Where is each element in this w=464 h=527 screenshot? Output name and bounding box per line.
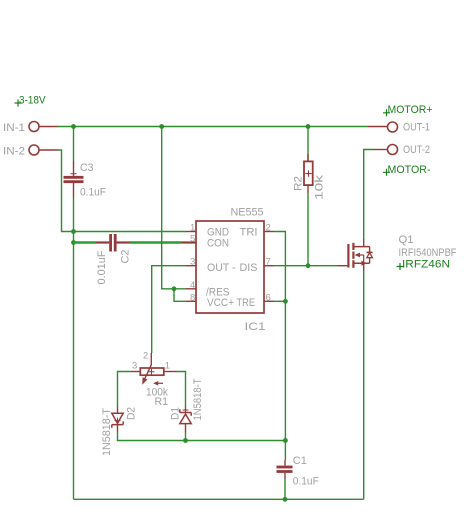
pin 1 stub <box>186 231 196 233</box>
pad IN-2 <box>29 145 58 155</box>
wire left GND vertical upper <box>73 127 75 162</box>
pin 4 stub <box>186 288 196 290</box>
pad IN-1 <box>29 122 58 132</box>
svg-text:Q1: Q1 <box>399 234 414 246</box>
pin 6 stub <box>264 300 274 302</box>
wire R2 top <box>307 127 309 162</box>
wire pot pin1 to D1 <box>176 372 186 408</box>
svg-text:10k: 10k <box>314 174 326 200</box>
svg-text:R2: R2 <box>293 176 305 191</box>
svg-text:1N5818-T: 1N5818-T <box>192 378 204 420</box>
svg-text:D2: D2 <box>125 407 137 420</box>
svg-text:2: 2 <box>266 223 271 234</box>
svg-text:2: 2 <box>143 351 148 362</box>
wire bottom rail <box>74 498 364 500</box>
capacitor C1 <box>277 460 293 479</box>
svg-text:OUT -: OUT - <box>207 262 236 274</box>
transistor Q1 <box>338 239 373 271</box>
wire CON stub highlighted <box>181 241 196 243</box>
svg-text:C3: C3 <box>80 162 94 174</box>
pad OUT-1 <box>368 122 398 132</box>
junction <box>183 438 188 443</box>
svg-text:3-18V: 3-18V <box>19 95 46 107</box>
svg-text:MOTOR-: MOTOR- <box>388 164 431 176</box>
svg-text:TRE: TRE <box>237 297 256 309</box>
svg-text:DIS: DIS <box>240 262 258 274</box>
diode D1 <box>180 407 191 433</box>
svg-text:0.1uF: 0.1uF <box>80 187 106 199</box>
pin 3 stub <box>186 265 196 267</box>
svg-text:D1: D1 <box>170 407 182 420</box>
wire D1 to bottom diode rail <box>185 433 187 441</box>
wire TRI to TRE vertical <box>274 232 285 302</box>
svg-text:C1: C1 <box>293 455 307 467</box>
junction <box>71 124 76 129</box>
wire pot pin3 to D2 <box>118 372 131 408</box>
wire CON line right <box>130 241 182 243</box>
diode D2 <box>112 407 123 432</box>
svg-text:1: 1 <box>190 223 195 234</box>
junction <box>71 229 76 234</box>
svg-text:R1: R1 <box>155 396 169 408</box>
svg-text:1: 1 <box>165 361 170 372</box>
wire +V drop to pins 4 8 <box>162 127 186 302</box>
pad OUT-2 <box>374 145 398 155</box>
svg-text:8: 8 <box>190 292 195 303</box>
wire source down <box>363 271 365 499</box>
wire CON line left <box>74 241 97 243</box>
potentiometer R1 <box>130 353 176 386</box>
svg-text:MOTOR+: MOTOR+ <box>388 104 433 116</box>
svg-text:IN-1: IN-1 <box>3 122 25 134</box>
wire OUT-2 to drain <box>364 150 374 240</box>
IC IC1 NE555 body <box>196 221 264 313</box>
svg-text:TRI: TRI <box>240 227 258 239</box>
junction <box>283 497 288 502</box>
supply 3-18V <box>15 95 47 107</box>
svg-text:IRFZ46N: IRFZ46N <box>402 259 450 271</box>
svg-text:5: 5 <box>190 234 195 245</box>
resistor R2 <box>304 154 313 193</box>
svg-text:IRFI540NPBF: IRFI540NPBF <box>399 247 457 259</box>
svg-text:6: 6 <box>266 292 271 303</box>
pin 8 stub <box>186 300 196 302</box>
svg-text:7: 7 <box>266 257 271 268</box>
svg-text:C2: C2 <box>120 250 132 264</box>
junction <box>306 124 311 129</box>
wire OUT to wiper <box>152 266 186 353</box>
wire D2 to bottom diode rail <box>118 432 286 441</box>
svg-text:OUT-1: OUT-1 <box>403 122 430 134</box>
junction <box>71 240 76 245</box>
svg-text:IN-2: IN-2 <box>3 146 25 158</box>
supply MOTOR- <box>383 164 431 176</box>
wire +V top rail <box>58 126 368 128</box>
supply MOTOR+ <box>383 104 433 116</box>
junction <box>283 299 288 304</box>
svg-text:1N5818-T: 1N5818-T <box>101 408 113 456</box>
wire left GND vertical lower <box>73 198 75 499</box>
pin 5 stub <box>186 242 196 244</box>
svg-text:IC1: IC1 <box>245 321 266 333</box>
svg-text:CON: CON <box>207 238 229 250</box>
svg-text:OUT-2: OUT-2 <box>403 144 430 156</box>
wire DIS to gate <box>274 265 338 267</box>
wire R2 bottom to DIS line <box>307 193 309 266</box>
svg-text:3: 3 <box>132 361 137 372</box>
supply IRFZ46N <box>397 259 451 271</box>
svg-text:0.1uF: 0.1uF <box>293 476 319 488</box>
pin 7 stub <box>264 265 274 267</box>
svg-text:VCC+: VCC+ <box>207 297 234 309</box>
capacitor C2 <box>96 234 130 252</box>
wire IN-2 to pin1 <box>58 150 186 232</box>
capacitor C3 <box>64 161 84 198</box>
wire C1 bottom to ground rail <box>284 479 286 500</box>
junction <box>159 124 164 129</box>
wire TRE down to C1 <box>284 301 286 460</box>
junction <box>172 286 177 291</box>
svg-text:3: 3 <box>190 257 195 268</box>
svg-text:4: 4 <box>190 280 195 291</box>
pin 2 stub <box>264 231 274 233</box>
junction <box>306 263 311 268</box>
wire TRE stub link <box>274 300 285 302</box>
svg-text:NE555: NE555 <box>231 207 264 219</box>
junction <box>283 438 288 443</box>
svg-text:0.01uF: 0.01uF <box>96 250 108 284</box>
